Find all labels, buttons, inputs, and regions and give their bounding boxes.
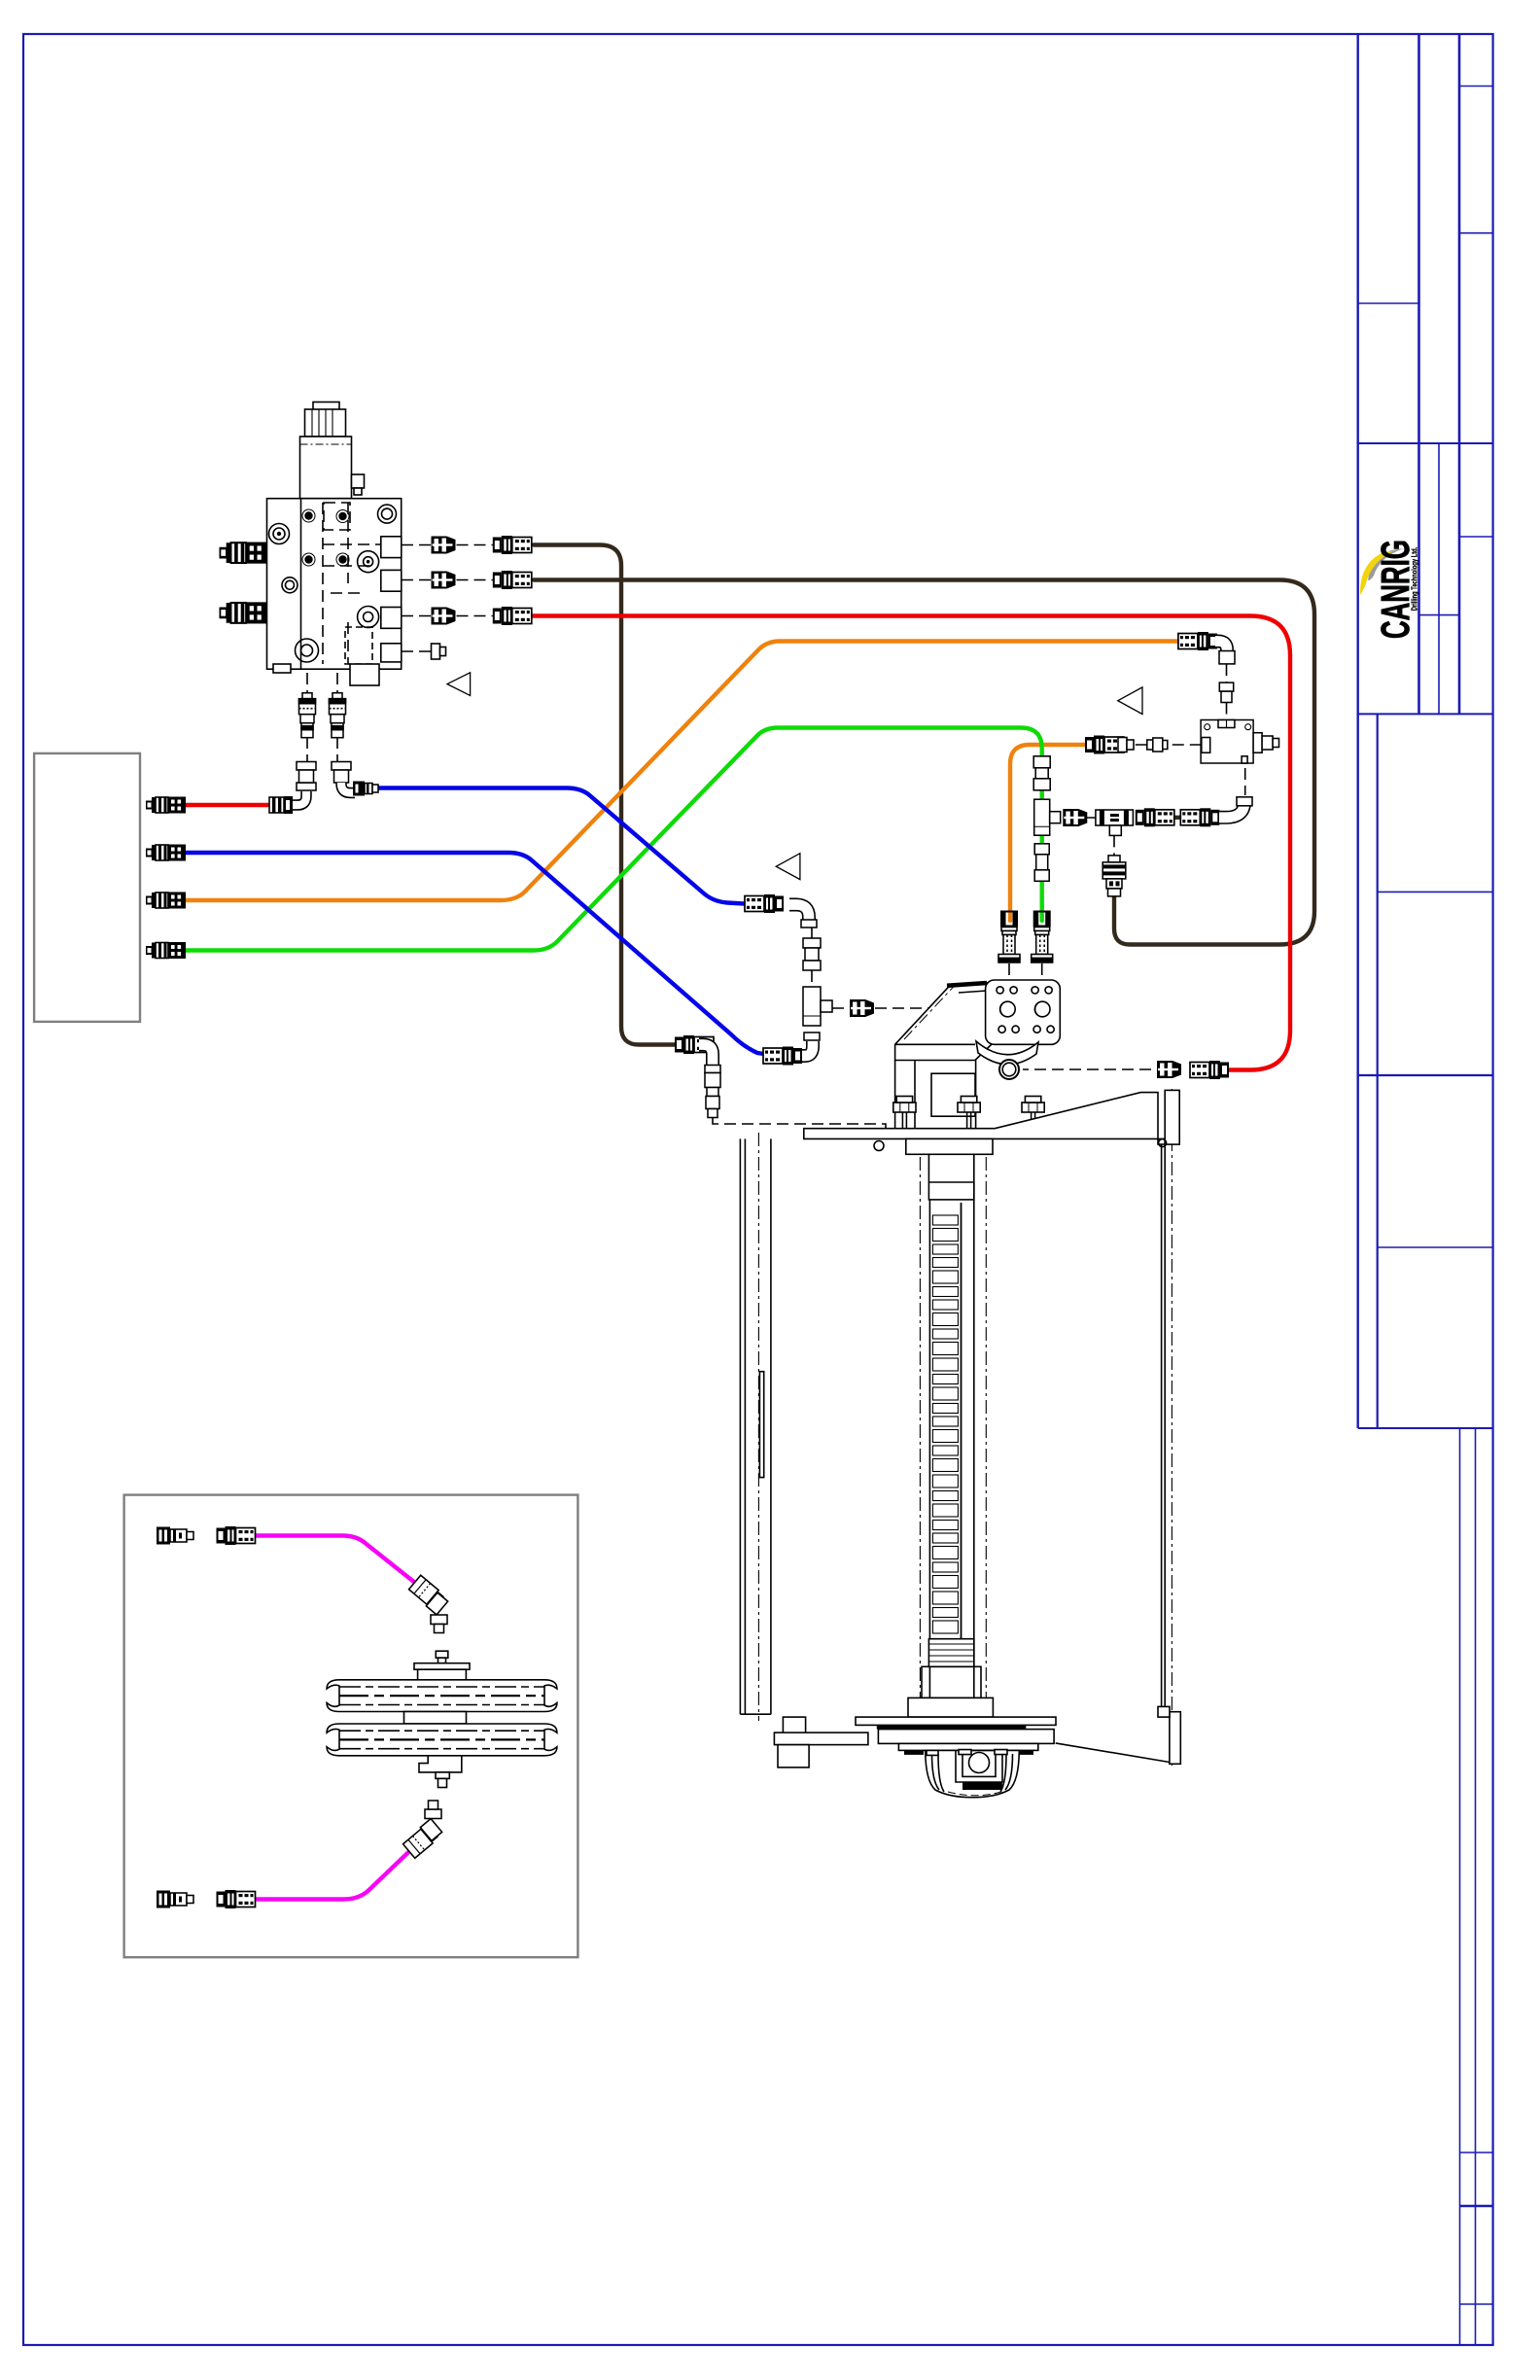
red hose-end fitting at manifold elbow [269,796,293,814]
valve left port dashes + fitting [1126,744,1202,746]
blue elbow (bend to east) [341,783,355,793]
black1 end fitting [675,1035,714,1054]
winch top plate [804,1093,1165,1144]
relief chain fitting + elbow up [1180,808,1219,826]
bolt dots [304,511,312,519]
blue2 end fitting [763,1047,802,1066]
left quick couplers [220,542,267,564]
manifold block [267,499,402,670]
strap under flange [976,1041,1038,1065]
triangle marker B (winch blue) [776,854,800,880]
drum shell left [740,1138,771,1714]
hose: black hose 1 (manifold port1 to winch left elbow) [534,545,675,1045]
coil side fitting [352,474,365,488]
pump bracket body [895,983,992,1061]
CANRIG logo (rotated 90deg) [1368,548,1404,580]
orange elbow at relief [1178,632,1217,650]
sheave bottom hub [419,1756,462,1772]
screw bottom stack [928,1639,973,1667]
hose: orange hose 2 (valve to left coupler) [1010,745,1085,921]
blue swivel fitting [353,782,378,796]
blue chain elbow top [789,905,809,921]
hose: magenta hose 2 (lower sheave hose) [257,1847,414,1900]
pump mounting flange w/ ports [986,980,1061,1044]
hose: red hose 1 (HPU to manifold elbow) [185,803,269,807]
hose: blue hose 1 (manifold elbow to winch valve chain) [375,788,744,904]
screw segments [932,1215,958,1225]
green union 2 [1034,844,1049,882]
sheave top hub [414,1663,470,1670]
red elbow (bend up) [293,791,306,805]
sheave disc 2 [327,1724,557,1756]
base hex bolts [893,1102,916,1112]
hose: green hose (HPU to right coupler via crossover) [185,728,1042,951]
green tee [1034,799,1061,835]
motor port circle [999,1060,1019,1079]
red end fittings at winch [1190,1061,1229,1079]
hose: black hose 2 (manifold port2 around right side down to tee fitting) [534,580,1314,945]
screw shaft centrelines [920,1157,986,1714]
grease fitting top [436,1651,448,1658]
triangle marker C (relief valve) [1118,687,1142,715]
blue chain union [803,938,821,970]
relief valve block [1201,720,1253,764]
45 deg elbow upper [409,1575,448,1632]
black1 elbow down [699,1045,713,1066]
right port bosses [381,537,402,558]
face ports (circles) [269,524,290,544]
left foot [783,1717,805,1764]
hose: blue hose 2 (HPU to winch lower elbow) [185,853,774,1056]
red elbow top fitting [297,762,316,784]
title block grid [1356,34,1358,1428]
right side panel [1162,1144,1166,1706]
pilot operated check housing bottom right [345,627,372,664]
tee2 w bottom stub [1096,810,1134,835]
green union 1 [1033,756,1050,790]
blue elbow top fitting [332,762,351,784]
blue chain bottom elbow [799,1041,813,1056]
HPU couplers [146,797,186,814]
tee side fitting [850,999,874,1017]
bottom ports dashed + fittings [307,673,337,761]
HPU source box (left) [34,753,140,1022]
sheave disc 1 [327,1680,557,1712]
fitting pair right of tee2 [1136,808,1174,826]
orange coupler vertical [998,911,1020,963]
sheave mid hub [404,1712,467,1725]
hose: magenta hose 1 (upper sheave hose) [256,1536,420,1588]
orange2 end fitting pair [1085,736,1124,754]
blue1 end fitting pair [745,894,784,913]
45 deg elbow lower [403,1801,442,1858]
triangle marker A (manifold) [447,673,471,696]
solenoid coil nut [313,402,339,410]
blue chain tee [803,987,832,1026]
hose: black jumper (tee to relief elbow) [1172,816,1184,820]
internal dashed spool details [323,503,387,664]
detail box (bottom left, sheave circuit) [124,1495,578,1958]
motor dome [926,1750,1020,1797]
drum top flange [906,1138,993,1154]
solenoid coil body [300,437,352,499]
loose fittings in box [157,1527,193,1545]
motor stack [856,1717,1056,1725]
port dashed leaders + mating fittings [402,544,493,546]
green coupler vertical [1032,911,1053,963]
hose: orange hose 1 (HPU to relief valve elbow) [185,642,1188,901]
hose: red hose 2 (manifold port3 around right side to winch motor port) [515,616,1290,1070]
svg-text:Drilling Technology Ltd.: Drilling Technology Ltd. [1412,547,1419,612]
black2 tee-drop fitting [1102,856,1126,896]
